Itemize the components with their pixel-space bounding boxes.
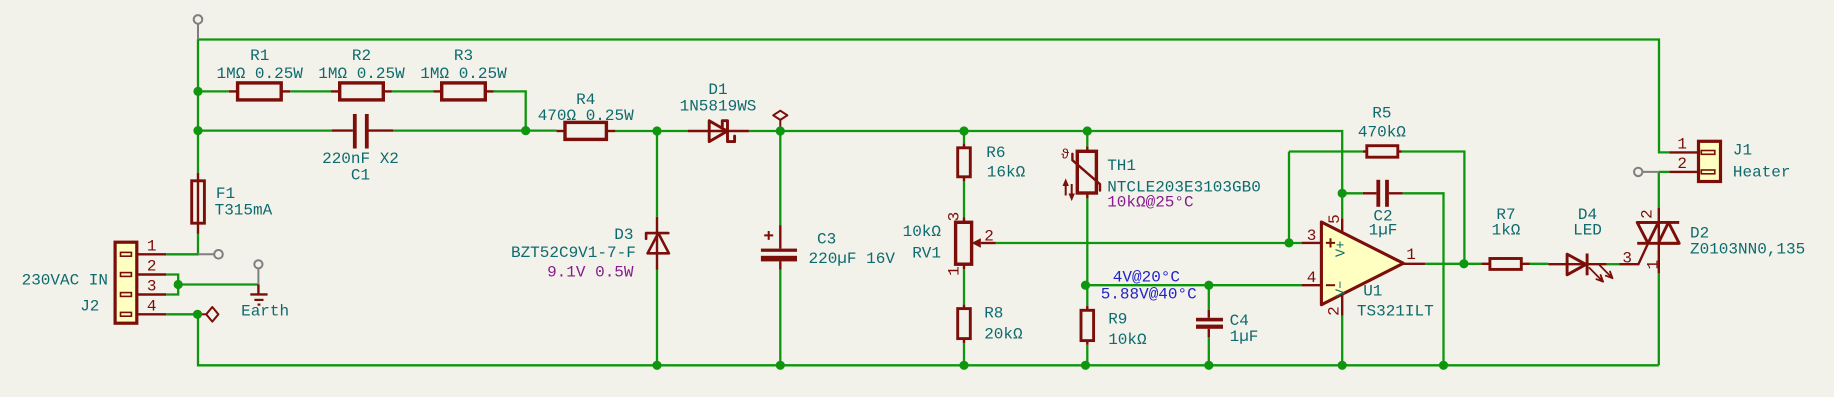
svg-text:1kΩ: 1kΩ — [1492, 222, 1521, 240]
svg-text:2: 2 — [1639, 209, 1657, 219]
svg-text:3: 3 — [946, 212, 964, 222]
svg-text:V−: V− — [1335, 281, 1350, 297]
svg-text:Earth: Earth — [241, 303, 289, 321]
svg-text:1MΩ 0.25W: 1MΩ 0.25W — [216, 65, 303, 83]
svg-text:1µF: 1µF — [1230, 328, 1259, 346]
svg-text:1MΩ 0.25W: 1MΩ 0.25W — [318, 65, 405, 83]
svg-text:R5: R5 — [1372, 105, 1391, 123]
svg-text:16kΩ: 16kΩ — [987, 164, 1026, 182]
svg-text:J1: J1 — [1733, 142, 1752, 160]
svg-text:3: 3 — [147, 278, 157, 296]
svg-text:3: 3 — [1622, 250, 1632, 268]
svg-text:1µF: 1µF — [1369, 222, 1398, 240]
svg-text:T315mA: T315mA — [215, 202, 273, 220]
svg-text:10kΩ: 10kΩ — [1108, 331, 1147, 349]
svg-text:BZT52C9V1-7-F: BZT52C9V1-7-F — [511, 244, 636, 262]
svg-text:470Ω 0.25W: 470Ω 0.25W — [538, 107, 634, 125]
svg-text:1: 1 — [1645, 260, 1663, 270]
svg-text:C1: C1 — [351, 167, 370, 185]
svg-text:D3: D3 — [614, 226, 633, 244]
svg-text:220µF 16V: 220µF 16V — [809, 250, 896, 268]
svg-text:TS321ILT: TS321ILT — [1357, 303, 1434, 321]
svg-text:TH1: TH1 — [1107, 157, 1136, 175]
svg-text:220nF X2: 220nF X2 — [322, 150, 399, 168]
svg-text:9.1V 0.5W: 9.1V 0.5W — [547, 264, 634, 282]
svg-text:230VAC IN: 230VAC IN — [22, 272, 108, 290]
svg-text:R2: R2 — [352, 47, 371, 65]
svg-text:1: 1 — [1677, 135, 1687, 153]
svg-text:1: 1 — [1406, 246, 1416, 264]
svg-text:RV1: RV1 — [912, 245, 941, 263]
svg-text:R9: R9 — [1108, 311, 1127, 329]
svg-text:ϑ: ϑ — [1061, 148, 1069, 164]
svg-text:3: 3 — [1307, 227, 1317, 245]
svg-text:U1: U1 — [1363, 283, 1382, 301]
svg-text:R3: R3 — [454, 47, 473, 65]
svg-text:4V@20°C: 4V@20°C — [1113, 269, 1180, 287]
svg-text:1: 1 — [147, 237, 157, 255]
svg-text:2: 2 — [984, 228, 994, 246]
svg-text:10kΩ: 10kΩ — [903, 223, 942, 241]
svg-text:V+: V+ — [1335, 241, 1350, 257]
svg-text:Heater: Heater — [1733, 164, 1791, 182]
svg-text:2: 2 — [1326, 306, 1344, 316]
svg-text:5.88V@40°C: 5.88V@40°C — [1101, 286, 1197, 304]
svg-text:1MΩ 0.25W: 1MΩ 0.25W — [420, 65, 507, 83]
svg-text:20kΩ: 20kΩ — [984, 326, 1023, 344]
svg-text:R8: R8 — [984, 305, 1003, 323]
svg-text:R1: R1 — [250, 47, 269, 65]
svg-text:R4: R4 — [576, 91, 595, 109]
svg-text:4: 4 — [147, 297, 157, 315]
svg-text:1N5819WS: 1N5819WS — [680, 98, 757, 116]
svg-text:5: 5 — [1326, 214, 1344, 224]
svg-text:R6: R6 — [986, 144, 1005, 162]
svg-text:2: 2 — [1677, 155, 1687, 173]
svg-text:1: 1 — [946, 266, 964, 276]
svg-text:LED: LED — [1573, 222, 1602, 240]
svg-text:Z0103NN0,135: Z0103NN0,135 — [1690, 241, 1805, 259]
svg-text:470kΩ: 470kΩ — [1358, 124, 1406, 142]
svg-text:F1: F1 — [216, 185, 235, 203]
svg-text:10kΩ@25°C: 10kΩ@25°C — [1107, 194, 1193, 212]
svg-text:C3: C3 — [817, 231, 836, 249]
svg-text:4: 4 — [1307, 269, 1317, 287]
svg-text:D1: D1 — [708, 81, 727, 99]
svg-text:2: 2 — [147, 258, 157, 276]
svg-text:J2: J2 — [80, 298, 99, 316]
